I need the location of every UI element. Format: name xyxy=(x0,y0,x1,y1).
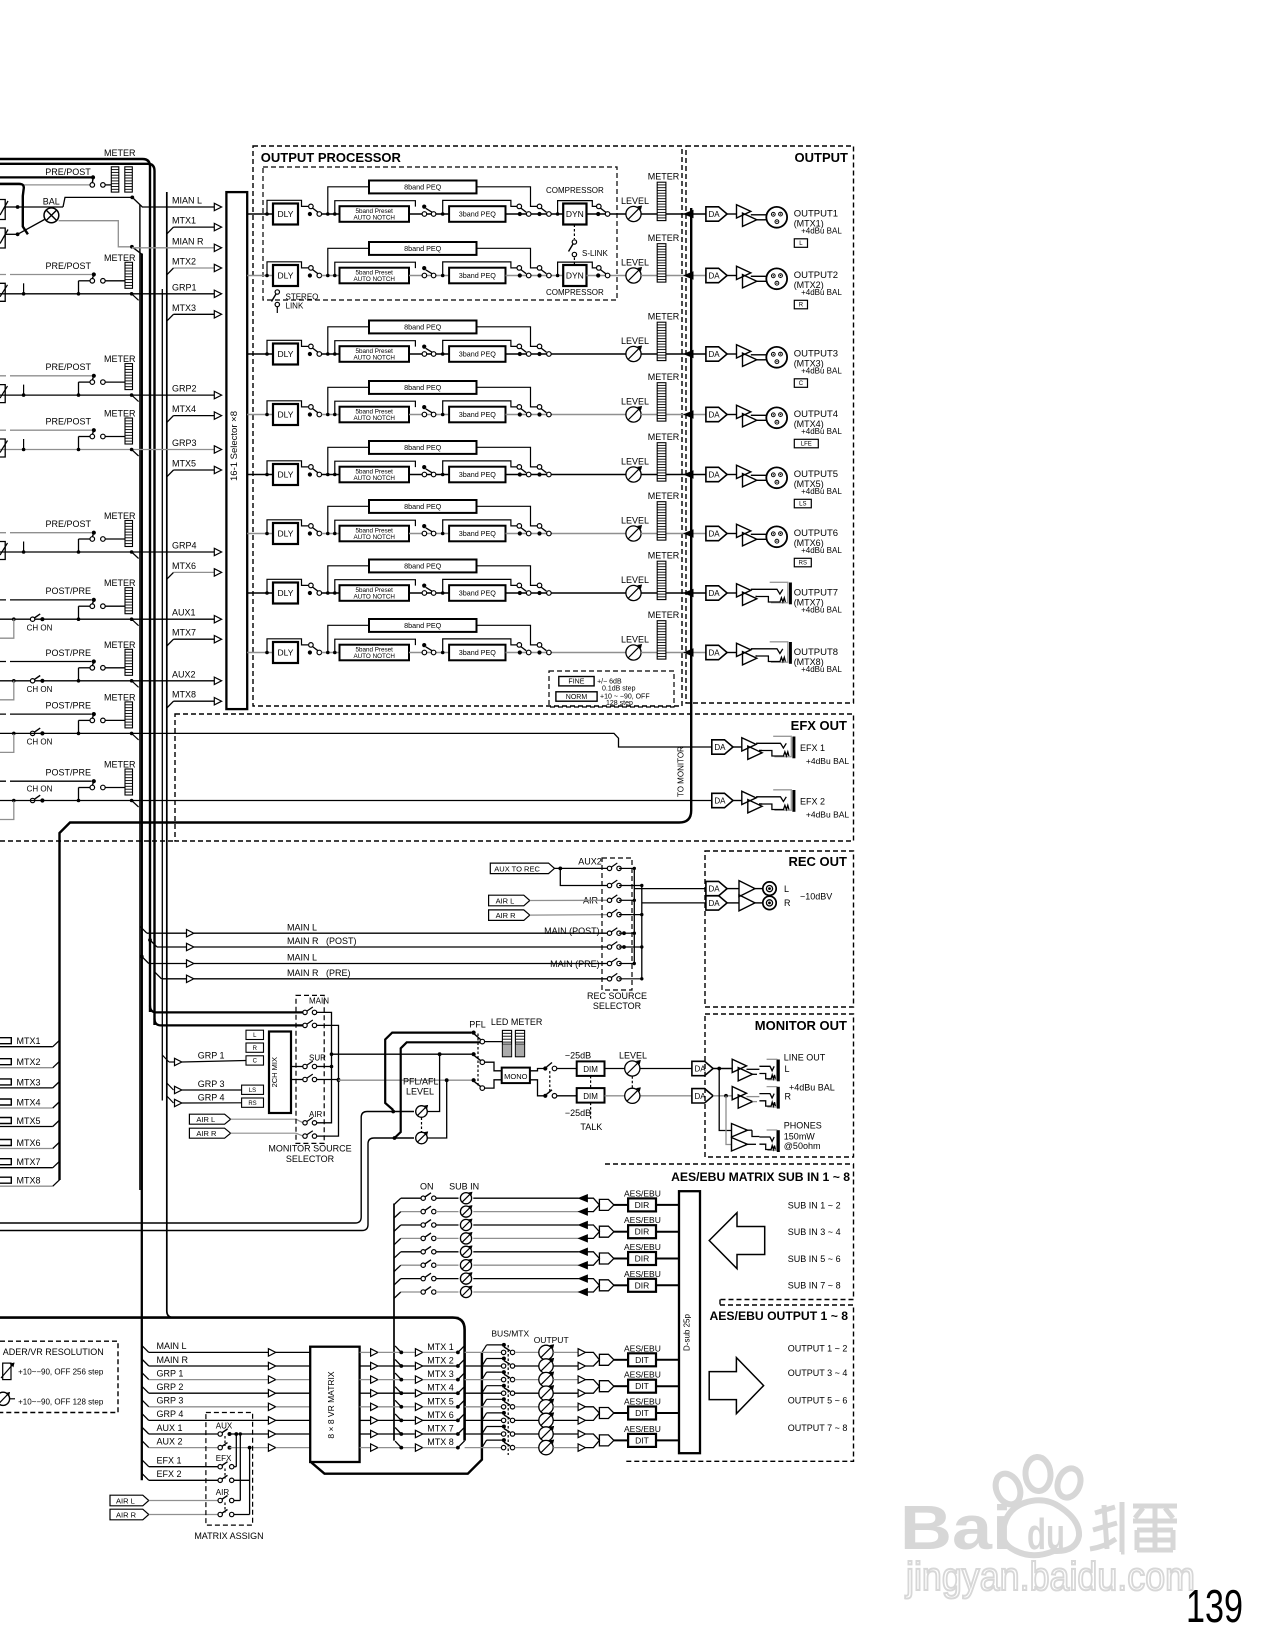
switch after DLY6 xyxy=(309,524,314,529)
monitor source selector switches xyxy=(303,1010,307,1014)
3band PEQ box ch7 xyxy=(449,585,505,601)
svg-text:BAL: BAL xyxy=(43,197,60,207)
8band PEQ box ch8 xyxy=(369,619,477,632)
gang dashed AUX switches xyxy=(224,1436,226,1446)
svg-text:AES/EBU: AES/EBU xyxy=(624,1269,661,1279)
selector input row AUX1 xyxy=(0,618,214,620)
svg-text:0.1dB step: 0.1dB step xyxy=(602,686,636,693)
svg-text:RS: RS xyxy=(799,561,807,567)
svg-text:METER: METER xyxy=(104,760,136,770)
processor channel 3 wire from selector xyxy=(247,353,273,355)
svg-text:COMPRESSOR: COMPRESSOR xyxy=(546,288,604,297)
svg-text:TALK: TALK xyxy=(580,1122,602,1132)
svg-text:TO MONITOR: TO MONITOR xyxy=(677,746,686,797)
wire riser to 8band PEQ ch8 xyxy=(328,625,369,652)
3band PEQ box ch6 xyxy=(449,526,505,542)
svg-text:L: L xyxy=(785,1064,790,1074)
output amplifier 7 xyxy=(727,592,736,594)
wire to output section ch8 xyxy=(641,652,706,654)
phone jack connector EFX 1 xyxy=(773,736,791,756)
svg-text:EFX 1: EFX 1 xyxy=(157,1456,182,1466)
matrix assign switch AIR 1 xyxy=(218,1498,222,1502)
tag AIR R monitor xyxy=(189,1128,230,1138)
delay DLY1 xyxy=(273,204,298,225)
D-sub 25p connector box xyxy=(679,1191,700,1453)
SUB IN row 2 xyxy=(394,1212,401,1218)
DIR box 1 xyxy=(628,1198,656,1211)
wire bus vertical x166.8 turning into horizontal bus y1317.6 xyxy=(167,192,459,1318)
DA converter output 1 xyxy=(706,207,727,221)
switch after DYN ch2 xyxy=(587,275,634,277)
svg-text:METER: METER xyxy=(104,148,136,158)
DIT box 1 xyxy=(628,1353,656,1366)
8band PEQ box ch4 xyxy=(369,381,477,394)
svg-text:METER: METER xyxy=(648,312,680,322)
svg-text:EFX: EFX xyxy=(216,1454,232,1463)
tag AUX TO REC xyxy=(490,863,554,874)
svg-text:SUB IN 7 ~ 8: SUB IN 7 ~ 8 xyxy=(788,1281,841,1291)
svg-text:EFX 1: EFX 1 xyxy=(800,743,825,753)
selector input row MTX2 xyxy=(167,268,174,275)
matrix output row MTX 4 xyxy=(360,1392,371,1394)
svg-text:DLY: DLY xyxy=(278,529,294,539)
delay DLY7 xyxy=(273,583,298,604)
SUB IN row 4 xyxy=(394,1238,401,1244)
svg-text:METER: METER xyxy=(104,578,136,588)
S-LINK gang switch between DYN1 and DYN2 xyxy=(573,225,575,240)
svg-text:OUTPUT: OUTPUT xyxy=(534,1335,569,1345)
tag MTX1 monitor feed xyxy=(0,1038,11,1044)
svg-text:LFE: LFE xyxy=(801,442,812,448)
svg-text:−25dB: −25dB xyxy=(565,1108,591,1118)
svg-text:GRP1: GRP1 xyxy=(172,282,197,292)
rec source selector switch y979 xyxy=(607,977,611,981)
8band PEQ box ch5 xyxy=(369,441,477,454)
output level knob 7 xyxy=(539,1427,553,1441)
wire to output section ch1 xyxy=(641,213,706,215)
rec source selector switch y900 xyxy=(607,898,611,902)
connector tag SUB IN pair 2 xyxy=(599,1226,614,1237)
3band PEQ box ch4 xyxy=(449,407,505,423)
svg-text:LINK: LINK xyxy=(286,302,304,311)
svg-text:150mW: 150mW xyxy=(784,1132,816,1142)
wire EFX2 source row to EFX OUT DA xyxy=(0,800,712,802)
svg-text:DA: DA xyxy=(709,899,721,908)
svg-text:AUX 1: AUX 1 xyxy=(157,1423,183,1433)
svg-text:du: du xyxy=(1027,1510,1065,1559)
phone jack LINE OUT L xyxy=(767,1059,777,1079)
matrix input row GRP 2 xyxy=(142,1386,149,1393)
svg-text:8band PEQ: 8band PEQ xyxy=(404,621,442,630)
wire matrix output bus wrap (thick) xyxy=(311,1352,482,1473)
XLR connector OUTPUT6 xyxy=(766,526,787,547)
svg-text:METER: METER xyxy=(104,692,136,702)
switch after auto notch ch8 xyxy=(409,652,449,654)
wire to output section ch7 xyxy=(641,592,706,594)
svg-text:DIT: DIT xyxy=(635,1408,649,1418)
processor channel 2 DLY bypass wire xyxy=(265,274,269,278)
svg-text:OUTPUT: OUTPUT xyxy=(795,150,849,165)
svg-text:DLY: DLY xyxy=(278,271,294,281)
svg-text:OUTPUT 1 ~ 2: OUTPUT 1 ~ 2 xyxy=(788,1343,848,1353)
svg-text:REC SOURCE: REC SOURCE xyxy=(587,991,647,1001)
gang dashed BUS/MTX switches xyxy=(507,1345,509,1455)
svg-text:REC OUT: REC OUT xyxy=(789,854,848,869)
connector tag SUB IN pair 3 xyxy=(599,1253,614,1264)
svg-text:MAIN L: MAIN L xyxy=(157,1341,187,1351)
selector input row GRP3 xyxy=(0,449,214,451)
wire to output section ch5 xyxy=(641,474,706,476)
svg-text:+4dBu BAL: +4dBu BAL xyxy=(801,546,842,555)
output level knob 4 xyxy=(539,1386,553,1400)
svg-text:DIT: DIT xyxy=(635,1381,649,1391)
svg-text:−25dB: −25dB xyxy=(565,1050,591,1060)
matrix output row MTX 3 xyxy=(360,1379,371,1381)
selector input row MTX7 xyxy=(167,639,174,646)
wire top thick bus elbow to vertical x152.5 xyxy=(0,164,155,1025)
MATRIX ASSIGN dashed box xyxy=(206,1413,253,1526)
8band PEQ box ch7 xyxy=(369,560,477,573)
svg-text:LEVEL: LEVEL xyxy=(619,1050,647,1060)
svg-text:CH ON: CH ON xyxy=(27,624,53,633)
svg-text:DIM: DIM xyxy=(583,1065,598,1074)
switch pair after 3band PEQ ch5 xyxy=(506,474,634,476)
switch after DLY4 xyxy=(309,405,314,410)
tag AIR L monitor xyxy=(189,1114,230,1124)
processor channel 6 wire from selector xyxy=(247,533,273,535)
svg-text:CH ON: CH ON xyxy=(27,785,53,794)
DA converter output 8 xyxy=(706,645,727,659)
svg-text:AES/EBU: AES/EBU xyxy=(624,1424,661,1434)
svg-text:139: 139 xyxy=(1186,1580,1243,1632)
STEREO LINK switch xyxy=(275,290,279,294)
surround assign label C xyxy=(794,379,807,388)
rec feed row MAIN R (PRE) y979 xyxy=(155,972,162,979)
wire riser to 8band PEQ ch6 xyxy=(328,506,369,533)
switch after auto notch ch5 xyxy=(409,474,449,476)
fader symbol legend xyxy=(3,1363,11,1380)
monitor level knob L xyxy=(605,1068,692,1070)
5band preset auto notch box ch8 xyxy=(340,645,410,661)
DA converter REC R xyxy=(706,896,727,910)
wire TO MONITOR vertical bus xyxy=(60,208,692,1180)
phone jack connector OUTPUT8 xyxy=(770,642,788,662)
svg-text:AUTO NOTCH: AUTO NOTCH xyxy=(353,355,395,362)
svg-text:MTX5: MTX5 xyxy=(17,1116,41,1126)
switch pair after 3band PEQ ch3 xyxy=(506,353,634,355)
svg-text:DLY: DLY xyxy=(278,470,294,480)
svg-text:DA: DA xyxy=(709,885,721,894)
svg-text:R: R xyxy=(799,303,804,309)
5band preset auto notch box ch5 xyxy=(340,467,410,483)
DA converter EFX 1 xyxy=(712,740,733,754)
svg-text:MTX7: MTX7 xyxy=(172,628,196,638)
wire selector collect verticals xyxy=(317,1012,332,1122)
wire monitor R bus to switches xyxy=(339,1079,472,1081)
wire riser to 8band PEQ ch4 xyxy=(328,387,369,414)
svg-text:LINE OUT: LINE OUT xyxy=(784,1053,826,1063)
processor channel 2 wire from selector xyxy=(247,275,273,277)
switch pair after 3band PEQ ch6 xyxy=(506,533,634,535)
rec feed row MAIN R (POST) y947 xyxy=(148,938,152,942)
svg-text:DIT: DIT xyxy=(635,1355,649,1365)
svg-text:AES/EBU: AES/EBU xyxy=(624,1397,661,1407)
switch after auto notch ch6 xyxy=(409,533,449,535)
svg-text:METER: METER xyxy=(104,354,136,364)
svg-text:PRE/POST: PRE/POST xyxy=(46,362,92,372)
svg-text:+4dBu BAL: +4dBu BAL xyxy=(801,367,842,376)
MONO box xyxy=(502,1068,530,1084)
processor channel 4 wire from selector xyxy=(247,414,273,416)
XLR connector OUTPUT3 xyxy=(766,347,787,368)
svg-text:MTX 8: MTX 8 xyxy=(427,1437,454,1447)
BUS/MTX select switch 5 xyxy=(502,1397,506,1401)
meter bars stereo pair top xyxy=(111,167,119,192)
svg-text:AIR L: AIR L xyxy=(196,1115,215,1124)
svg-text:OUTPUT 5 ~ 6: OUTPUT 5 ~ 6 xyxy=(788,1396,848,1406)
wire riser to 8band PEQ ch5 xyxy=(328,447,369,474)
fader symbol cut at left edge y294 xyxy=(0,283,5,301)
selector input row GRP4 xyxy=(0,551,214,553)
output amplifier 6 xyxy=(727,533,736,535)
surround assign label L xyxy=(794,239,807,248)
svg-text:MTX 4: MTX 4 xyxy=(427,1383,454,1393)
16-1 Selector x8 box xyxy=(226,192,247,709)
meter bar ch5 xyxy=(657,443,666,481)
level knob ch6 xyxy=(626,526,641,541)
svg-text:MTX3: MTX3 xyxy=(17,1077,41,1087)
svg-text:MTX4: MTX4 xyxy=(17,1098,41,1108)
svg-text:POST/PRE: POST/PRE xyxy=(46,648,92,658)
wire 8band PEQ return ch3 xyxy=(477,327,538,347)
svg-text:MTX8: MTX8 xyxy=(172,690,196,700)
output amplifier 2 xyxy=(727,275,736,277)
section box AES/EBU OUTPUT 1-8 xyxy=(625,1300,854,1462)
connector tag DIT pair 4 xyxy=(599,1435,614,1446)
svg-text:AIR L: AIR L xyxy=(496,897,515,906)
switch pair after 3band PEQ ch2 xyxy=(506,275,564,277)
SUB IN row 3 xyxy=(394,1225,401,1231)
processor channel 7 wire from selector xyxy=(247,592,273,594)
selector input row MIAN R xyxy=(132,247,214,249)
svg-text:SUB IN 1 ~ 2: SUB IN 1 ~ 2 xyxy=(788,1200,841,1210)
rec source selector switch y915 xyxy=(607,912,611,916)
tag AIR R rec xyxy=(489,910,530,921)
selector input row MTX5 xyxy=(167,470,174,477)
switch after DLY2 xyxy=(309,266,314,271)
big arrow OUTPUT (pointing right) xyxy=(709,1358,763,1414)
svg-text:MTX 3: MTX 3 xyxy=(427,1369,454,1379)
amplifier REC L xyxy=(727,888,739,890)
wire bypass over auto-notch ch6 xyxy=(335,520,416,533)
svg-text:GRP 1: GRP 1 xyxy=(198,1051,225,1061)
svg-text:OUTPUT PROCESSOR: OUTPUT PROCESSOR xyxy=(261,150,402,165)
svg-text:GRP 4: GRP 4 xyxy=(157,1409,184,1419)
delay DLY6 xyxy=(273,523,298,544)
wire bypass over auto-notch ch4 xyxy=(335,401,416,414)
svg-text:DA: DA xyxy=(709,272,721,281)
svg-text:MTX7: MTX7 xyxy=(17,1157,41,1167)
svg-text:DA: DA xyxy=(709,411,721,420)
wire bypass over 3band PEQ ch1 xyxy=(443,200,517,214)
tag MTX6 monitor feed xyxy=(0,1140,11,1146)
svg-text:AES/EBU: AES/EBU xyxy=(624,1188,661,1198)
svg-text:OUTPUT 7 ~ 8: OUTPUT 7 ~ 8 xyxy=(788,1423,848,1433)
5band preset auto notch box ch7 xyxy=(340,585,410,601)
amplifier REC R xyxy=(727,902,739,904)
wire to phones amps xyxy=(719,1069,731,1131)
surround assign label RS xyxy=(794,558,811,567)
output level knob 2 xyxy=(539,1359,553,1373)
svg-text:GRP3: GRP3 xyxy=(172,438,197,448)
delay DLY3 xyxy=(273,344,298,365)
5band preset auto notch box ch2 xyxy=(340,268,410,284)
wire SUB IN pairs merge to DIR tags xyxy=(587,1198,599,1211)
matrix assign switch AUX 2 xyxy=(218,1445,222,1449)
svg-text:METER: METER xyxy=(648,551,680,561)
matrix output row MTX 1 xyxy=(360,1351,371,1353)
wire pair merge to DIT 4 xyxy=(585,1434,599,1448)
svg-text:MAIN (PRE): MAIN (PRE) xyxy=(550,959,600,969)
wire bypass over 3band PEQ ch3 xyxy=(443,340,517,354)
level knob ch5 xyxy=(626,467,641,482)
wire thick elbow from y183.8 down-left to MAIN R fader xyxy=(0,184,28,235)
processor channel 4 DLY bypass wire xyxy=(265,413,269,417)
svg-text:MONITOR SOURCE: MONITOR SOURCE xyxy=(268,1144,351,1154)
selector input row MTX1 xyxy=(167,227,174,234)
section box EFX OUT xyxy=(175,714,854,841)
svg-text:8band PEQ: 8band PEQ xyxy=(404,244,442,253)
svg-text:AUX: AUX xyxy=(216,1422,233,1431)
svg-text:DA: DA xyxy=(709,210,721,219)
svg-text:+4dBu BAL: +4dBu BAL xyxy=(801,665,842,674)
svg-text:FINE: FINE xyxy=(568,679,584,686)
svg-text:AUX1: AUX1 xyxy=(172,608,196,618)
arrow to monitor bus ch5 xyxy=(684,471,693,478)
section box OUTPUT PROCESSOR xyxy=(253,146,682,706)
svg-text:MTX4: MTX4 xyxy=(172,404,196,414)
wire PFL bus 1 (thick) up to PFL switch xyxy=(385,1033,471,1110)
phone jack connector OUTPUT7 xyxy=(770,582,788,602)
rec source selector switch y886 xyxy=(607,883,611,887)
switch after auto notch ch3 xyxy=(409,353,449,355)
svg-text:AUTO NOTCH: AUTO NOTCH xyxy=(353,534,395,541)
processor channel 8 wire from selector xyxy=(247,652,273,654)
svg-text:NORM: NORM xyxy=(566,694,588,701)
svg-text:MAIN (POST): MAIN (POST) xyxy=(544,926,600,936)
connector tag SUB IN pair 1 xyxy=(599,1199,614,1210)
svg-text:8band PEQ: 8band PEQ xyxy=(404,443,442,452)
svg-text:3band PEQ: 3band PEQ xyxy=(459,271,497,280)
switch after DLY8 xyxy=(309,643,314,648)
surround assign label LFE xyxy=(794,439,818,448)
section box AES/EBU MATRIX SUB IN 1-8 xyxy=(605,1164,854,1300)
svg-text:SELECTOR: SELECTOR xyxy=(593,1001,642,1011)
8band PEQ box ch2 xyxy=(369,242,477,255)
delay DLY4 xyxy=(273,404,298,425)
svg-text:8band PEQ: 8band PEQ xyxy=(404,383,442,392)
svg-text:R: R xyxy=(785,1091,792,1101)
svg-text:DA: DA xyxy=(709,589,721,598)
svg-text:METER: METER xyxy=(104,511,136,521)
RCA connector L xyxy=(755,888,763,890)
matrix assign switch AUX 1 xyxy=(218,1432,222,1436)
svg-text:MIAN R: MIAN R xyxy=(172,236,204,246)
svg-text:SUB IN 5 ~ 6: SUB IN 5 ~ 6 xyxy=(788,1254,841,1264)
wire matrix assign collect verticals xyxy=(235,1434,237,1467)
fader symbol cut at left edge y552 xyxy=(0,542,5,560)
svg-text:PFL/AFL: PFL/AFL xyxy=(403,1077,439,1087)
DIM box R xyxy=(577,1088,605,1103)
matrix input row GRP 3 xyxy=(142,1400,149,1407)
svg-text:LEVEL: LEVEL xyxy=(406,1087,434,1097)
level knob ch8 xyxy=(626,645,641,660)
selector input row MTX3 xyxy=(167,314,174,321)
svg-text:+4dBu BAL: +4dBu BAL xyxy=(806,810,850,820)
arrow to monitor bus ch2 xyxy=(684,272,693,279)
svg-text:DA: DA xyxy=(709,530,721,539)
tag AIR R bottom xyxy=(110,1509,149,1520)
svg-text:LS: LS xyxy=(799,502,806,508)
svg-text:METER: METER xyxy=(648,372,680,382)
DA converter output 4 xyxy=(706,407,727,421)
tag MTX3 monitor feed xyxy=(0,1079,11,1085)
amplifier EFX 1 xyxy=(733,746,742,748)
wire thick horizontal BUS feed y1317.6 to vertical x464.6 xyxy=(0,1318,465,1441)
svg-text:MTX6: MTX6 xyxy=(172,561,196,571)
svg-text:AUTO NOTCH: AUTO NOTCH xyxy=(353,276,395,283)
8x8 VR MATRIX box xyxy=(310,1347,359,1462)
BUS/MTX select switch 6 xyxy=(502,1411,506,1415)
MONITOR SOURCE SELECTOR dashed box xyxy=(296,995,324,1143)
2CH MIX box xyxy=(269,1032,291,1114)
switch after DYN ch1 xyxy=(587,213,634,215)
BUS/MTX select switch 1 xyxy=(502,1343,506,1347)
meter bar ch3 xyxy=(657,322,666,360)
svg-text:AIR R: AIR R xyxy=(196,1129,217,1138)
svg-text:DIR: DIR xyxy=(635,1254,650,1264)
switch after auto notch ch4 xyxy=(409,414,449,416)
tag AIR L bottom xyxy=(110,1495,149,1506)
output level knob 3 xyxy=(539,1372,553,1386)
arrow to monitor bus ch7 xyxy=(684,590,693,597)
svg-text:AUTO NOTCH: AUTO NOTCH xyxy=(353,215,395,222)
meter bar ch2 xyxy=(657,244,666,282)
svg-text:MTX1: MTX1 xyxy=(17,1036,41,1046)
output level knob 1 xyxy=(539,1345,553,1359)
RCA connector R xyxy=(755,902,763,904)
8band PEQ box ch3 xyxy=(369,321,477,334)
svg-text:MAIN: MAIN xyxy=(309,997,329,1006)
wire monitor MAIN feeds xyxy=(150,1006,303,1013)
monitor level knob R xyxy=(605,1095,692,1097)
DA converter REC L xyxy=(706,881,727,895)
processor channel 1 DLY bypass wire xyxy=(265,212,269,216)
svg-text:COMPRESSOR: COMPRESSOR xyxy=(546,186,604,195)
DIT box 4 xyxy=(628,1434,656,1447)
DA converter output 6 xyxy=(706,526,727,540)
svg-text:OUTPUT 3 ~ 4: OUTPUT 3 ~ 4 xyxy=(788,1368,848,1378)
svg-text:DLY: DLY xyxy=(278,209,294,219)
svg-text:GRP2: GRP2 xyxy=(172,384,197,394)
output level knob 5 xyxy=(539,1400,553,1414)
PFL/AFL level knob 2 xyxy=(416,1132,428,1144)
svg-text:DLY: DLY xyxy=(278,648,294,658)
svg-text:AES/EBU MATRIX SUB IN 1 ~ 8: AES/EBU MATRIX SUB IN 1 ~ 8 xyxy=(671,1170,850,1184)
svg-text:AUX 2: AUX 2 xyxy=(157,1436,183,1446)
wire riser to 8band PEQ ch1 xyxy=(328,187,369,214)
svg-text:POST/PRE: POST/PRE xyxy=(46,586,92,596)
